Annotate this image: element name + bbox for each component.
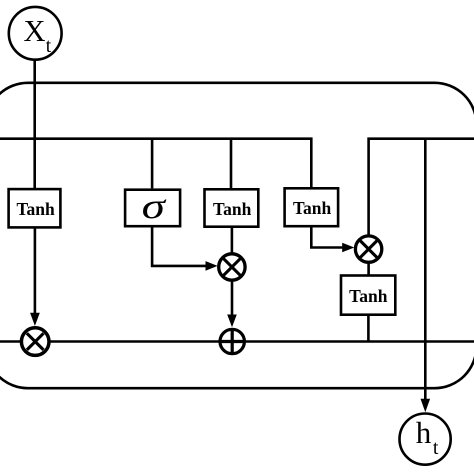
- svg-text:σ: σ: [142, 187, 168, 226]
- svg-text:Tanh: Tanh: [213, 199, 252, 219]
- svg-text:X: X: [24, 14, 46, 48]
- svg-text:t: t: [433, 437, 439, 459]
- svg-text:Tanh: Tanh: [349, 286, 388, 306]
- svg-text:t: t: [46, 36, 52, 57]
- svg-text:h: h: [416, 415, 432, 450]
- svg-text:Tanh: Tanh: [16, 199, 55, 219]
- svg-text:Tanh: Tanh: [293, 198, 332, 218]
